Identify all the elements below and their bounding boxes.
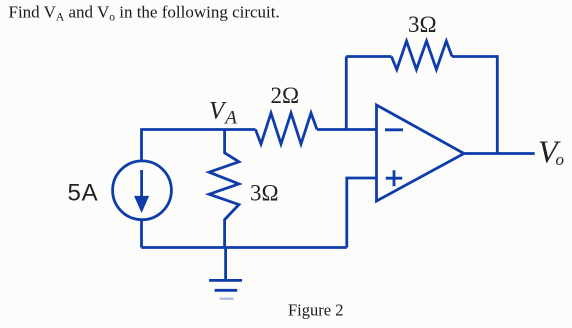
ground bar 1 bbox=[209, 279, 242, 282]
resistor R 3ohm feedback (top zigzag) bbox=[391, 41, 452, 70]
op-amp U1 triangle bbox=[377, 105, 465, 201]
wire: op-amp output bbox=[464, 152, 535, 155]
svg-text:3Ω: 3Ω bbox=[408, 12, 437, 37]
svg-text:Vo: Vo bbox=[538, 134, 564, 170]
svg-text:VA: VA bbox=[209, 98, 237, 129]
op-amp minus symbol bbox=[385, 128, 403, 131]
wire: node A to op-amp inverting input bbox=[317, 128, 377, 131]
wire: current source bottom lead bbox=[140, 220, 143, 248]
wire: top feedback wire right segment + right vertical down to output bbox=[452, 57, 497, 154]
wire: top lead of current source to node A (main horizontal) bbox=[142, 130, 256, 162]
svg-text:2Ω: 2Ω bbox=[271, 83, 300, 108]
wire: non-inverting input to bottom rail bbox=[347, 178, 377, 248]
wire: feedback left vertical bbox=[345, 57, 348, 130]
svg-text:Figure 2: Figure 2 bbox=[288, 301, 343, 320]
ground bar 3 (faint) bbox=[220, 298, 234, 300]
ground stem bbox=[224, 248, 227, 281]
current source arrow bbox=[136, 170, 147, 210]
wire: top feedback wire left segment bbox=[346, 55, 391, 58]
current source I1 5A circle bbox=[113, 161, 172, 220]
resistor R 3ohm shunt (vertical zigzag with leads) bbox=[209, 130, 239, 248]
svg-text:5A: 5A bbox=[68, 180, 99, 207]
svg-text:Find VA and Vo in the followin: Find VA and Vo in the following circuit. bbox=[9, 3, 280, 24]
wire: bottom rail bbox=[142, 246, 347, 249]
resistor R 2ohm (horizontal zigzag) bbox=[256, 113, 318, 144]
svg-text:3Ω: 3Ω bbox=[250, 181, 279, 206]
ground bar 2 bbox=[215, 289, 238, 292]
op-amp plus symbol bbox=[386, 170, 402, 186]
